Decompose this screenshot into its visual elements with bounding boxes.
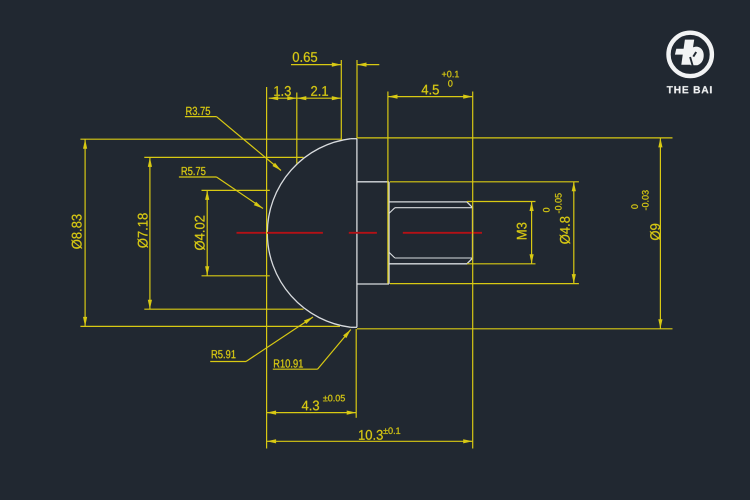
logo b glyph bowl slit [693,52,696,57]
leader R10.91 [274,359,303,367]
extension line: vertical 4.5 left [387,92,389,284]
extension line: vertical 0.65 right [356,60,358,138]
part: thread runout bottom diagonal [389,252,395,258]
extension line: dia 7.18 bottom [144,308,303,310]
leader R3.75 [186,107,210,115]
dimension dia 4.02 [206,190,208,275]
part: thread minor diameter top line [395,207,473,209]
leader R5.91 [212,350,236,358]
extension line: dia 4.8 bottom [390,283,579,285]
dimension 4.5 with tolerance [388,96,473,98]
part: thread runout top diagonal [389,208,395,214]
dimension 2.1 [297,96,307,100]
extension line: dia 4.02 top [202,189,270,191]
part: cylinder right edge [388,182,390,284]
extension line: vertical 4.3 right [355,329,357,418]
dimension 1.3 [269,97,342,99]
extension line: vertical 0.65 left [340,60,342,140]
extension line: dia 9 top [357,137,673,139]
leader R5.75 [182,167,206,175]
extension line: vertical at dome tangent [266,87,268,449]
extension line: M3 top [467,201,536,203]
extension line: vertical stud end [472,92,474,449]
logo wordmark THE BAI [667,86,712,93]
extension line: dia 8.83 bottom [80,325,340,327]
dimension M3 [531,202,533,264]
extension line: dia 9 bottom [357,328,673,330]
dimension 4.3 with tolerance [267,412,357,414]
part: thread minor diameter bottom line [395,257,473,259]
dimension dia 9 with tolerance [659,138,661,329]
part: cylinder bottom edge [357,283,389,285]
part: cylinder top edge [357,181,389,183]
centerline segment 1 [237,232,323,234]
part: threaded stud outline with chamfers [389,202,473,264]
dimension 0.65 [291,64,341,66]
dimension dia 4.8 with tolerance [573,182,575,284]
logo ring [669,33,712,76]
logo dash [675,49,686,55]
logo b glyph bowl [688,47,704,66]
dimension dia 8.83 [84,139,86,326]
logo b glyph notch [690,57,693,67]
part: spherical dome arc [267,139,350,328]
dimension 10.3 with tolerance [267,440,473,442]
extension line: dia 4.02 bottom [202,275,270,277]
extension line: dia 4.8 top [390,181,579,183]
extension line: dia 8.83 top [80,138,342,140]
extension line: dia 7.18 top [144,156,303,158]
centerline segment 3 [403,232,482,234]
part: dome top flat edge [351,138,357,140]
extension line: M3 bottom [467,263,536,265]
extension line: vertical 1.3/2.1 middle [296,93,298,164]
part: dome bottom flat edge [351,326,357,328]
centerline segment 2 [349,232,377,234]
logo b glyph stem [681,40,694,65]
dimension dia 7.18 [149,157,151,309]
part: flat face vertical edge [356,139,358,328]
